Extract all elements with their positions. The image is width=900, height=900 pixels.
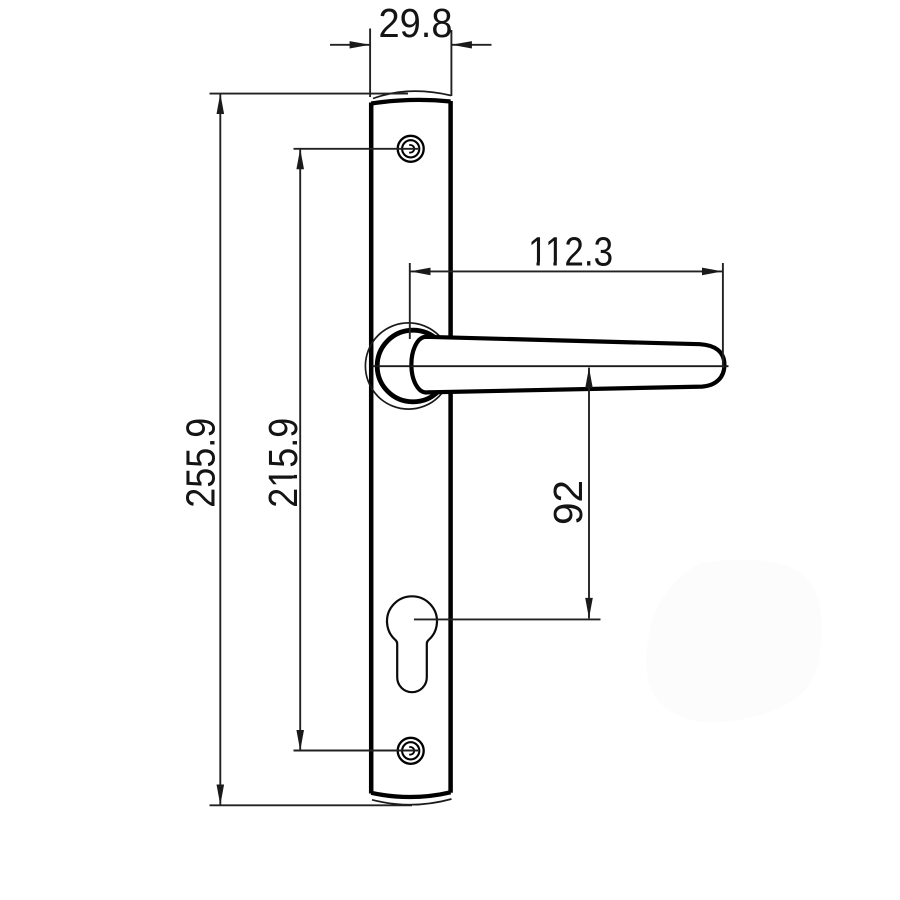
dim 112.3 left arrow — [410, 268, 431, 276]
top screw — [398, 136, 424, 162]
svg-text:29.8: 29.8 — [379, 0, 453, 46]
dim 255.9 bottom extension line — [210, 804, 413, 806]
dim 92 bottom extension line — [414, 618, 601, 620]
backplate bottom edge arc — [371, 792, 450, 797]
lever handle body — [411, 337, 724, 393]
dim 29.8 left extension line — [369, 29, 371, 98]
backplate right edge — [448, 101, 453, 793]
dim 29.8 right tail line — [451, 44, 491, 46]
dim 92 bottom arrow — [585, 598, 593, 619]
dim 112.3 line — [410, 270, 723, 272]
dim 215.9 line — [299, 149, 301, 751]
mask digit-1 foot of 215.9 — [292, 468, 298, 475]
dim 92 top arrow — [585, 368, 593, 389]
handle rose outer circle — [365, 323, 451, 409]
svg-text:255.9: 255.9 — [178, 418, 224, 508]
dim 29.8 right extension line — [450, 30, 452, 96]
dim 112.3 right extension line — [722, 263, 724, 368]
mask digit-1 feet of 112.3 — [529, 262, 536, 268]
dim 112.3 left extension line — [409, 263, 411, 339]
svg-text:215.9: 215.9 — [260, 418, 306, 508]
bottom screw — [398, 738, 424, 764]
lever centerline — [372, 365, 729, 367]
dim 215.9 top arrow — [296, 149, 304, 170]
dim 92 line — [588, 368, 590, 619]
dim 215.9 bottom arrow — [296, 730, 304, 751]
backplate top edge arc — [371, 100, 450, 104]
dim 29.8 left tail line — [330, 44, 370, 46]
dim 215.9 top extension line — [294, 148, 419, 150]
dim 255.9 top extension line — [210, 93, 409, 95]
keyhole euro cylinder — [387, 596, 437, 692]
dim 255.9 line — [219, 94, 221, 806]
dim 112.3 right arrow — [702, 268, 723, 276]
dim 29.8 left arrow — [350, 41, 371, 48]
handle rose inner thick ring — [377, 330, 449, 402]
svg-text:112.3: 112.3 — [528, 229, 613, 275]
svg-text:92: 92 — [545, 480, 591, 525]
backplate left edge — [369, 103, 374, 794]
backplate top cap thin arc — [373, 91, 451, 98]
dim 255.9 bottom arrow — [217, 785, 225, 806]
backplate bottom cap thin arc — [372, 799, 452, 805]
dim 255.9 top arrow — [217, 94, 225, 115]
faint background blob — [646, 559, 822, 722]
dim 29.8 right arrow — [451, 41, 472, 48]
dim 215.9 bottom extension line — [294, 750, 419, 752]
